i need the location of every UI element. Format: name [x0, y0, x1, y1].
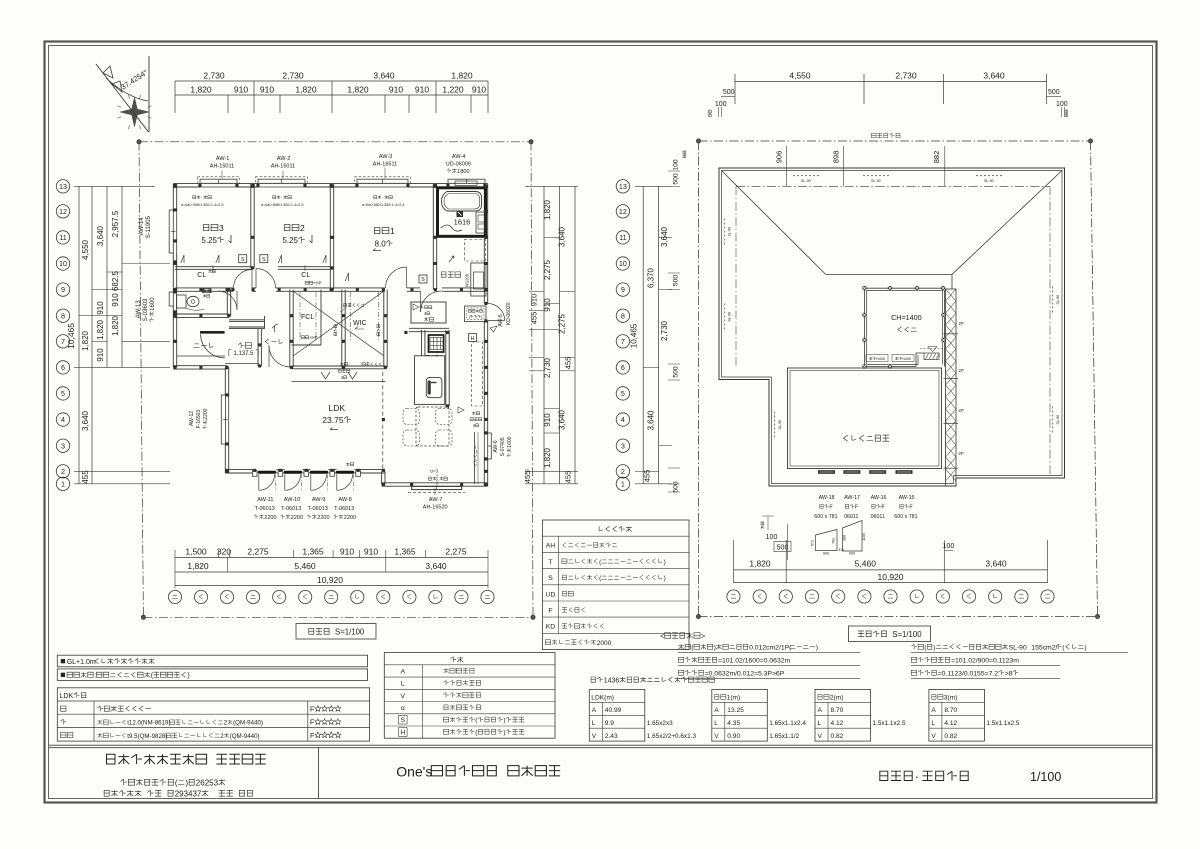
- window label AW-12 rotated (west): [189, 411, 195, 426]
- room label 洋室1 8.0帖: [375, 227, 380, 233]
- svg-text:1.65x2x3: 1.65x2x3: [647, 720, 673, 727]
- svg-text:S=1/100: S=1/100: [335, 628, 365, 637]
- svg-text:AH-15011: AH-15011: [210, 164, 234, 170]
- svg-text:11: 11: [59, 233, 66, 242]
- svg-text:9: 9: [621, 285, 625, 294]
- svg-text:910: 910: [543, 413, 552, 427]
- svg-text:F: F: [310, 720, 314, 727]
- svg-text:·: ·: [382, 195, 383, 200]
- svg-text:455: 455: [643, 470, 652, 483]
- floor plan caption box 平面図 S=1/100: [296, 624, 376, 640]
- left dimension ticks: [74, 185, 155, 187]
- svg-text:UD-06009: UD-06009: [446, 162, 471, 168]
- exterior wall: LDK west: [224, 367, 226, 395]
- svg-text:W1200: W1200: [465, 273, 470, 287]
- svg-text:t9.5(QM-9828): t9.5(QM-9828): [127, 733, 167, 740]
- floor plan bottom dimension row2 (1820/5460/3640): [175, 571, 488, 573]
- svg-text:10,920: 10,920: [878, 572, 904, 582]
- toilet fixture: [177, 295, 187, 308]
- area table LDK(m2): [589, 689, 645, 741]
- svg-text:3,640: 3,640: [985, 559, 1007, 569]
- svg-text:(QM-9440): (QM-9440): [233, 720, 263, 727]
- svg-text:F: F: [310, 733, 314, 740]
- svg-text:H: H: [471, 336, 475, 342]
- interior wall: bedroom1 east / washroom west: [432, 184, 434, 290]
- loft knee wall labels 腰壁h400: [866, 355, 888, 362]
- svg-text:2,275: 2,275: [445, 547, 467, 557]
- bathtub: [442, 192, 482, 212]
- svg-text:2: 2: [224, 720, 228, 727]
- door arc bedroom3: [234, 270, 253, 289]
- room label ポーチ: [194, 344, 200, 348]
- svg-text:F: F: [310, 707, 314, 714]
- window AW-2 (top wall): [258, 179, 305, 183]
- window unit black bar at x336 with outswing arc: [337, 471, 353, 474]
- svg-text:AW-1: AW-1: [216, 156, 229, 162]
- svg-text:1.65x2/2+0.6x1.3: 1.65x2/2+0.6x1.3: [647, 733, 697, 740]
- roof plan caption box 屋根伏図 S=1/100: [849, 626, 931, 642]
- dining table dashed: [416, 407, 449, 446]
- svg-text:AW-16: AW-16: [871, 495, 887, 501]
- svg-text:S-03603: S-03603: [143, 298, 149, 321]
- casement S mark bedroom3: [239, 255, 247, 263]
- floor plan grid number circles 13..1 (left): [56, 180, 69, 193]
- hall to LDK door arc: [269, 346, 290, 368]
- svg-text:T-06013: T-06013: [334, 506, 354, 512]
- svg-text:0.82: 0.82: [831, 733, 844, 740]
- svg-text:2,730: 2,730: [203, 71, 225, 81]
- interior wall: corridor (bedrooms south): [175, 287, 233, 289]
- svg-text:=101.02/1600=0.0632m: =101.02/1600=0.0632m: [718, 658, 791, 665]
- svg-text:455: 455: [530, 312, 539, 325]
- svg-text:4: 4: [621, 415, 625, 424]
- svg-text:455: 455: [81, 470, 90, 484]
- svg-text:1100: 1100: [862, 533, 866, 541]
- svg-text:·: ·: [201, 195, 202, 200]
- svg-text:SL-90: SL-90: [984, 179, 994, 183]
- svg-text:0.82: 0.82: [944, 733, 957, 740]
- svg-text:3,640: 3,640: [373, 71, 395, 81]
- svg-text:910: 910: [530, 294, 539, 307]
- svg-text:6,370: 6,370: [647, 267, 656, 288]
- svg-text:3,640: 3,640: [983, 71, 1005, 81]
- vent note LDK south: [346, 463, 349, 466]
- registration line1 大阪府知事登録: [121, 779, 127, 785]
- hall hook arrow: [272, 324, 278, 332]
- svg-text:571: 571: [811, 540, 815, 546]
- svg-text:1,820: 1,820: [543, 199, 552, 220]
- svg-text:V: V: [818, 733, 823, 740]
- window AW-12 (LDK west wall): [221, 395, 225, 444]
- svg-text:·: ·: [915, 770, 919, 784]
- svg-text:S: S: [548, 575, 553, 582]
- roof eave outline (inner double line): [722, 171, 1063, 484]
- svg-text:LDK: LDK: [329, 403, 346, 413]
- svg-text:100: 100: [766, 534, 778, 541]
- svg-text:898: 898: [832, 151, 841, 164]
- closet small 収納 label bedroom3: [209, 270, 212, 273]
- floor plan bottom dimension row3 (10920): [175, 585, 488, 587]
- svg-text:AH: AH: [546, 543, 556, 550]
- svg-text:1: 1: [390, 226, 395, 236]
- loft hatch marker triangle: [928, 347, 937, 352]
- svg-text:8.0: 8.0: [375, 240, 387, 249]
- svg-text:1.65x1.1/2: 1.65x1.1/2: [769, 733, 799, 740]
- svg-text:13: 13: [59, 182, 67, 191]
- svg-text:906: 906: [775, 151, 784, 164]
- svg-text:1,820: 1,820: [96, 319, 105, 340]
- svg-text:LDK: LDK: [60, 693, 74, 700]
- svg-text:1: 1: [61, 479, 65, 488]
- window unit black bar at x258 with outswing arc: [259, 471, 275, 474]
- svg-text:2200: 2200: [264, 515, 276, 521]
- svg-text:CL: CL: [197, 272, 206, 279]
- void/loft-above dashed boundary (LDK): [382, 372, 384, 470]
- floor plan bottom dimension row1 (1500/320/2275/1365/910/910/1365/2275): [175, 557, 488, 559]
- svg-text:1,820: 1,820: [543, 447, 552, 468]
- svg-text:0.90: 0.90: [727, 733, 740, 740]
- note box GL+1.0m: [57, 655, 367, 667]
- svg-text:1,137.5: 1,137.5: [233, 351, 254, 357]
- floor plan right-side dimension lines: [543, 186, 545, 484]
- loft bottom wall with step: [865, 353, 925, 367]
- floor plan grid kana circles い..わ (bottom): [168, 590, 181, 603]
- counter カウンター: [474, 432, 476, 484]
- sheet title 平面図・屋根伏図 1/100: [880, 771, 888, 780]
- svg-text:4,550: 4,550: [81, 239, 90, 260]
- casement S mark bedroom2: [260, 255, 268, 263]
- svg-text:2: 2: [300, 223, 305, 233]
- roof loft box walls: [865, 287, 945, 289]
- svg-text:T-06013: T-06013: [308, 506, 328, 512]
- svg-text:500: 500: [723, 89, 735, 96]
- svg-text:SL-90: SL-90: [1056, 415, 1060, 425]
- svg-text:5: 5: [621, 389, 625, 398]
- svg-text:320: 320: [217, 547, 231, 557]
- svg-text:AW-8: AW-8: [338, 497, 351, 503]
- svg-text:682.5: 682.5: [111, 270, 120, 291]
- porch entry door leaf (thick) and swing arc: [200, 331, 225, 334]
- washroom label 洗面室: [441, 272, 446, 277]
- svg-text:α: α: [401, 705, 405, 712]
- svg-text:3: 3: [61, 441, 65, 450]
- svg-text:910: 910: [260, 85, 274, 95]
- loft label 上部ロフト: [344, 304, 347, 307]
- svg-text:SL-90: SL-90: [871, 179, 881, 183]
- svg-text:h400: h400: [877, 357, 885, 361]
- svg-text:·: ·: [281, 195, 282, 200]
- svg-text:2200: 2200: [291, 515, 303, 521]
- svg-text:WIC: WIC: [353, 320, 367, 327]
- area table 洋室2(m2): [815, 689, 871, 741]
- svg-text:A: A: [714, 707, 719, 714]
- svg-text:318: 318: [838, 548, 844, 552]
- loft ladder hatch: [924, 353, 939, 360]
- svg-text:4.12: 4.12: [831, 720, 844, 727]
- svg-text:12: 12: [59, 207, 67, 216]
- svg-text:1,820: 1,820: [81, 330, 90, 351]
- kitchen east wall: [445, 330, 447, 406]
- exterior wall: dining step east of LDK: [381, 471, 383, 484]
- svg-text:GL+1.0m: GL+1.0m: [67, 659, 96, 666]
- pantry storage 収納 with shelf label: [411, 302, 446, 323]
- svg-text:UD: UD: [546, 591, 556, 598]
- svg-text:3: 3: [621, 441, 625, 450]
- door arc bedroom1: [386, 267, 407, 288]
- svg-text:T: T: [548, 559, 552, 566]
- svg-text:380: 380: [843, 535, 847, 541]
- svg-text:AW-10: AW-10: [284, 497, 301, 503]
- svg-text:1,365: 1,365: [394, 547, 416, 557]
- svg-text:AW-14: AW-14: [139, 217, 145, 236]
- svg-text:500: 500: [777, 545, 789, 552]
- daylight note bedroom2: [273, 196, 276, 199]
- living void label リビング上部: [843, 435, 847, 441]
- toilet door arc: [218, 291, 237, 310]
- svg-text:1.5x1.1x2.5: 1.5x1.1x2.5: [986, 720, 1019, 727]
- svg-text:AW-13: AW-13: [136, 300, 142, 319]
- WIC cross brace X: [293, 291, 384, 356]
- interior wall: bedroom closets front: [175, 266, 253, 268]
- svg-text:2: 2: [61, 467, 65, 476]
- svg-text:L: L: [931, 720, 935, 727]
- svg-text:910: 910: [340, 547, 354, 557]
- svg-text:3,640: 3,640: [96, 225, 105, 246]
- door arc washroom: [421, 291, 442, 312]
- LDK interior finish table LDK内装: [57, 688, 369, 741]
- kitchen island counter: [415, 356, 445, 405]
- svg-text:A: A: [818, 707, 823, 714]
- site boundary around floor plan (dash-dot with corner dots): [139, 141, 531, 143]
- genkan entry step lines 上がり框: [229, 319, 265, 321]
- storage 収納 可動棚4段 labels right of kitchen: [472, 412, 475, 415]
- svg-text:910: 910: [364, 547, 378, 557]
- window jamb boxes: [252, 471, 257, 477]
- svg-text:S: S: [241, 257, 245, 263]
- svg-text:100: 100: [673, 159, 680, 171]
- svg-text:100: 100: [715, 101, 727, 108]
- boundary label 隣地境界線: [871, 133, 876, 138]
- svg-text:2,730: 2,730: [895, 71, 917, 81]
- genkan east wall: [257, 329, 259, 366]
- svg-text:10: 10: [59, 259, 67, 268]
- exterior wall: east (right): [483, 184, 485, 304]
- svg-text:2: 2: [621, 467, 625, 476]
- svg-text:SL-90: SL-90: [728, 312, 732, 322]
- shelf labels 半帖棚 rotated: [334, 325, 337, 336]
- living room void リビング上部 box: [788, 368, 942, 469]
- smoke exemption note 告示1436号: [591, 677, 596, 682]
- room label 洋室2 5.25帖: [285, 224, 290, 230]
- svg-text:10: 10: [619, 259, 627, 268]
- svg-text:H: H: [400, 730, 405, 737]
- svg-text:8: 8: [61, 311, 65, 320]
- svg-text:600: 600: [823, 552, 829, 556]
- upper cabinet dashed (kitchen): [472, 342, 483, 406]
- interior wall: divider bedroom3/bedroom2: [250, 184, 252, 268]
- svg-text:+HP: +HP: [313, 281, 321, 286]
- svg-text:=0.0632m/0.012=5.3P>6P: =0.0632m/0.012=5.3P>6P: [705, 671, 785, 678]
- svg-text:5: 5: [61, 389, 65, 398]
- svg-text:910: 910: [389, 85, 403, 95]
- svg-text:α=3: α=3: [430, 469, 438, 474]
- svg-text:910: 910: [543, 298, 552, 312]
- svg-text:910: 910: [96, 301, 105, 315]
- svg-text:2000: 2000: [597, 640, 612, 647]
- roof plan grid kana circles い..わ: [727, 590, 740, 603]
- svg-text:06011: 06011: [844, 514, 858, 520]
- hall south storage strip: [292, 365, 386, 367]
- svg-text:455: 455: [523, 471, 532, 484]
- svg-text:V: V: [714, 733, 719, 740]
- svg-text:5.25: 5.25: [282, 236, 298, 245]
- floor plan top dimension line row2 (1820/910/910/1820/1820/910/910/1220/910): [175, 94, 488, 96]
- roof plan left dimension lines: [642, 186, 644, 484]
- svg-text:4.12: 4.12: [944, 720, 957, 727]
- svg-text:AH-16511: AH-16511: [373, 162, 397, 168]
- window AW-13 toilet (west wall): [169, 292, 173, 306]
- svg-text:882: 882: [932, 151, 941, 164]
- svg-text:): ): [714, 645, 716, 652]
- room label 洋室3 5.25帖: [204, 224, 209, 230]
- window AW-14 (west wall): [169, 210, 173, 253]
- svg-text:T-06013: T-06013: [281, 506, 301, 512]
- bath drain box: [457, 211, 464, 218]
- bath window mark on top wall: [455, 181, 477, 186]
- roof left dim ticks: [635, 185, 672, 187]
- svg-text:1,820: 1,820: [451, 71, 473, 81]
- svg-text:8.70: 8.70: [944, 707, 957, 714]
- window elevation trapezoid 2: [843, 521, 863, 552]
- window unit black bar at x284 with outswing arc: [285, 471, 301, 474]
- svg-text:26253: 26253: [196, 779, 219, 788]
- exterior wall: west (left): [172, 184, 174, 210]
- area table 洋室3(m2): [929, 689, 985, 741]
- svg-text:SL-90: SL-90: [1009, 645, 1027, 652]
- kitchen sink: [426, 378, 442, 398]
- window swing chevrons: [181, 255, 184, 263]
- kitchen north wall: [409, 327, 449, 329]
- svg-text:AW-11: AW-11: [257, 497, 273, 503]
- site boundary line 隣地境界線 (dash-dot): [699, 140, 1091, 142]
- svg-text:1,820: 1,820: [295, 85, 317, 95]
- title block divider: [318, 748, 320, 799]
- svg-text:1,220: 1,220: [442, 85, 464, 95]
- WIC / FCL block walls: [289, 290, 291, 368]
- svg-text:2P: 2P: [959, 408, 964, 413]
- svg-text:2200: 2200: [344, 515, 356, 521]
- svg-text:5.25: 5.25: [201, 236, 217, 245]
- svg-text:AW-18: AW-18: [819, 495, 835, 501]
- area table 洋室1(m2): [712, 689, 768, 741]
- svg-text:): ): [1084, 645, 1086, 652]
- svg-text:AH-15011: AH-15011: [271, 164, 295, 170]
- svg-text:1436: 1436: [604, 678, 620, 685]
- exterior wall: bedrooms north (top): [173, 183, 200, 185]
- floor access hatch 床下収納(点検口): [465, 306, 487, 322]
- svg-text:3,640: 3,640: [660, 226, 669, 247]
- svg-text:<: <: [660, 632, 665, 641]
- svg-text:): ): [664, 559, 666, 566]
- svg-text:): ): [933, 645, 935, 652]
- toilet storage 収納 (bowtie mark): [203, 289, 211, 293]
- roof plan top dimension row (4550/2730/3640): [735, 81, 1047, 83]
- svg-text:9.9: 9.9: [605, 720, 614, 727]
- svg-text:SL-90: SL-90: [728, 227, 732, 237]
- daylight note bedroom1: [374, 196, 377, 199]
- svg-text:L: L: [592, 720, 596, 727]
- svg-text:CH=1400: CH=1400: [891, 313, 922, 322]
- svg-text:1600: 1600: [150, 297, 156, 311]
- svg-text:1,820: 1,820: [187, 561, 209, 571]
- svg-text:AH-16520: AH-16520: [423, 505, 448, 511]
- toilet room walls: [173, 313, 229, 315]
- svg-text:1,820: 1,820: [111, 315, 120, 336]
- svg-text:910: 910: [96, 348, 105, 362]
- window AW-3 (top wall): [357, 179, 408, 183]
- exterior wall: LDK south with folding windows AW-11 AW-10 AW-9 AW-8: [225, 469, 253, 471]
- svg-text:2,730: 2,730: [543, 357, 552, 378]
- bathroom UB-1616 heavy walls: [438, 188, 486, 237]
- svg-text:S=1/100: S=1/100: [892, 630, 922, 639]
- svg-text:AW-5: AW-5: [498, 314, 504, 326]
- svg-text:1,820: 1,820: [347, 85, 369, 95]
- svg-text:S-11905: S-11905: [146, 215, 152, 238]
- svg-text:100: 100: [1056, 101, 1068, 108]
- svg-text:500: 500: [673, 481, 680, 493]
- svg-text:1616: 1616: [454, 218, 471, 227]
- svg-text:>8: >8: [1005, 671, 1013, 678]
- svg-text:12: 12: [619, 207, 627, 216]
- svg-text:2,730: 2,730: [660, 320, 669, 341]
- svg-text::: :: [94, 673, 96, 680]
- storage labels 収納 可動棚 4段 (hall): [340, 363, 344, 366]
- roof windows AW-18..15 top-light marks: [818, 470, 835, 474]
- svg-text:A: A: [592, 707, 597, 714]
- svg-text:(: (: [175, 779, 178, 788]
- svg-text:10,920: 10,920: [317, 575, 343, 585]
- window unit black bar at x310 with outswing arc: [311, 471, 327, 474]
- svg-text:600 x 781: 600 x 781: [894, 514, 917, 520]
- sash legend table サッシ凡例: [543, 520, 690, 650]
- svg-text:3(m): 3(m): [944, 695, 958, 702]
- svg-text:600 x 781: 600 x 781: [814, 514, 837, 520]
- exterior wall: dining south: [382, 482, 488, 484]
- svg-text:+HP: +HP: [309, 335, 317, 340]
- window AW-4 bath (top wall): [448, 179, 485, 183]
- svg-text:3,640: 3,640: [81, 410, 90, 431]
- svg-text:FCL: FCL: [301, 314, 314, 321]
- svg-text:2200: 2200: [203, 408, 209, 419]
- svg-text:A: A: [931, 707, 936, 714]
- top dimension ticks: [174, 81, 176, 113]
- svg-text:10,465: 10,465: [66, 323, 76, 349]
- right dim ticks: [525, 185, 578, 187]
- floor plan left dimension lines: [78, 186, 80, 484]
- svg-text:): ): [503, 717, 505, 724]
- svg-text:500: 500: [673, 173, 680, 185]
- svg-text:): ): [185, 779, 188, 788]
- svg-text:F: F: [548, 608, 552, 615]
- svg-text:AW-17: AW-17: [844, 495, 860, 501]
- svg-text:AW-6: AW-6: [493, 440, 499, 452]
- svg-text:4: 4: [61, 415, 65, 424]
- exterior wall: porch south: [173, 365, 227, 367]
- svg-text:9: 9: [61, 285, 65, 294]
- svg-text:α=6x0.898/1.359-1.4>2.5: α=6x0.898/1.359-1.4>2.5: [261, 203, 304, 207]
- svg-text:2,730: 2,730: [282, 71, 304, 81]
- porch slab edge line: [177, 355, 225, 357]
